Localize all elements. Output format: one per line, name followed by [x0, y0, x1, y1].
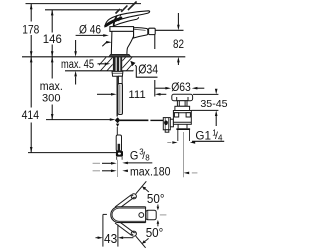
svg-text:G: G: [130, 149, 139, 163]
svg-text:4: 4: [218, 133, 223, 142]
svg-text:G1: G1: [195, 131, 211, 143]
svg-text:50°: 50°: [146, 225, 164, 240]
svg-text:146: 146: [43, 32, 62, 46]
svg-text:max. 45: max. 45: [61, 59, 94, 71]
svg-text:8: 8: [145, 153, 150, 162]
svg-text:Ø34: Ø34: [138, 62, 158, 77]
svg-text:Ø63: Ø63: [171, 82, 191, 94]
svg-text:50°: 50°: [147, 191, 165, 206]
svg-text:Ø 46: Ø 46: [79, 24, 101, 36]
svg-text:82: 82: [173, 37, 184, 51]
svg-text:max.: max.: [40, 81, 63, 93]
svg-text:35-45: 35-45: [200, 98, 227, 110]
svg-text:300: 300: [42, 92, 61, 104]
svg-text:414: 414: [22, 110, 40, 122]
svg-text:178: 178: [22, 25, 39, 37]
svg-text:43: 43: [104, 232, 117, 246]
svg-text:111: 111: [128, 89, 145, 101]
svg-text:max.180: max.180: [130, 166, 171, 178]
